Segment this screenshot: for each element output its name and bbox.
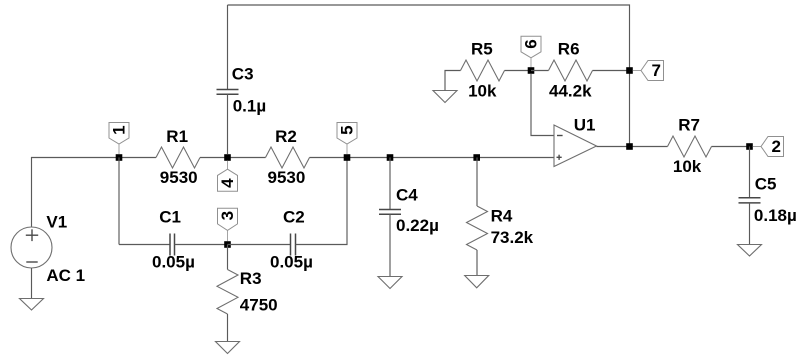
svg-text:4750: 4750: [240, 296, 278, 315]
capacitor C4: [379, 158, 439, 277]
node 1 flag: [109, 123, 129, 155]
resistor R1: [156, 127, 200, 187]
svg-text:C1: C1: [159, 208, 181, 227]
svg-text:5: 5: [338, 125, 357, 134]
wire V1 to ground: [31, 268, 33, 299]
svg-text:10k: 10k: [468, 82, 497, 101]
svg-text:R2: R2: [275, 127, 297, 146]
junction node 6: [528, 67, 535, 74]
node 6 flag: [521, 36, 541, 67]
wire C1 to node 3: [175, 244, 228, 246]
wire node 6 down to op-amp inverting input: [531, 74, 554, 136]
wire R4 to ground: [476, 250, 478, 276]
svg-text:73.2k: 73.2k: [491, 228, 534, 247]
wire lower rail left to C1: [119, 244, 170, 246]
svg-text:44.2k: 44.2k: [549, 82, 592, 101]
node 5 flag: [337, 123, 357, 155]
wire R5 to node 6: [505, 70, 532, 72]
node 4 flag: [218, 161, 238, 192]
wire R2 to op-amp noninverting input through nodes 5, C4, R4: [310, 157, 555, 159]
ground below C5: [738, 245, 762, 257]
svg-text:0.22µ: 0.22µ: [396, 216, 439, 235]
wire node 1 down to lower rail: [118, 158, 120, 245]
junction op-amp output: [626, 143, 633, 150]
svg-text:C4: C4: [396, 186, 418, 205]
wire C2 to node 5 riser: [296, 158, 348, 245]
svg-text:1: 1: [110, 125, 129, 134]
svg-text:R7: R7: [678, 116, 700, 135]
resistor R4: [467, 158, 534, 251]
junction node 1: [116, 154, 123, 161]
junction node 5: [344, 154, 351, 161]
svg-text:C3: C3: [232, 65, 254, 84]
svg-text:V1: V1: [46, 213, 67, 232]
resistor R2: [266, 127, 310, 187]
junction C4 tap: [387, 154, 394, 161]
svg-text:R4: R4: [491, 207, 513, 226]
ground below R3: [216, 342, 240, 354]
wire R3 to ground: [227, 314, 229, 342]
svg-text:AC 1: AC 1: [46, 266, 85, 285]
ground below C4: [378, 277, 402, 289]
resistor R5: [461, 40, 505, 101]
svg-text:0.05µ: 0.05µ: [152, 253, 195, 272]
svg-text:R1: R1: [166, 127, 188, 146]
wire node 3 to C2: [228, 244, 291, 246]
node 3 flag: [218, 208, 238, 241]
wire R1 to R2 through node 4: [200, 157, 266, 159]
svg-text:2: 2: [771, 137, 780, 156]
svg-text:7: 7: [651, 61, 660, 80]
node 7 flag: [633, 61, 664, 81]
junction node 3: [224, 241, 231, 248]
svg-text:C2: C2: [283, 208, 305, 227]
ground below R4: [465, 276, 489, 288]
junction node 4: [224, 154, 231, 161]
svg-text:R3: R3: [240, 269, 262, 288]
svg-text:6: 6: [522, 39, 541, 48]
resistor R6: [549, 40, 593, 101]
wire R7 to node 2: [712, 146, 750, 148]
svg-text:C5: C5: [755, 175, 777, 194]
wire op-amp output to R7 through output junction: [597, 146, 668, 148]
op-amp U1: [554, 116, 597, 167]
voltage source V1: [11, 213, 85, 286]
wire top feedback from C3 top to node 7 and op-amp output: [228, 5, 630, 147]
svg-text:R5: R5: [471, 40, 493, 59]
svg-text:4: 4: [218, 178, 237, 188]
resistor R3: [217, 245, 278, 315]
svg-text:9530: 9530: [160, 168, 198, 187]
svg-text:U1: U1: [574, 116, 596, 135]
svg-text:0.1µ: 0.1µ: [233, 97, 266, 116]
resistor R7: [668, 116, 712, 177]
svg-text:3: 3: [218, 211, 237, 220]
node 2 flag: [753, 137, 784, 157]
wire V1 to node 1 and R1: [32, 158, 157, 228]
ground at R5 left: [433, 91, 457, 103]
wire ground riser to R5: [445, 71, 461, 91]
wire R6 to node 7: [593, 70, 630, 72]
svg-text:10k: 10k: [673, 157, 702, 176]
wire node 6 to R6: [531, 70, 549, 72]
capacitor C1: [152, 208, 195, 272]
junction R4 tap: [473, 154, 480, 161]
capacitor C5: [739, 147, 797, 245]
capacitor C2: [270, 208, 313, 272]
svg-text:R6: R6: [558, 40, 580, 59]
svg-text:9530: 9530: [268, 168, 306, 187]
capacitor C3: [217, 5, 267, 154]
junction node 7: [626, 67, 633, 74]
svg-text:0.18µ: 0.18µ: [754, 206, 797, 225]
ground below V1: [20, 299, 44, 311]
svg-text:0.05µ: 0.05µ: [270, 253, 313, 272]
junction node 2: [746, 143, 753, 150]
